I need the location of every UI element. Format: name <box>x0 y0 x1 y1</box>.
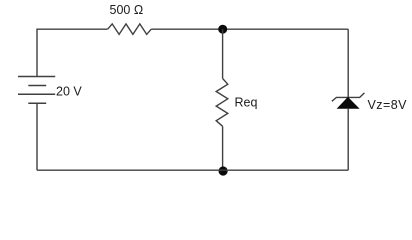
battery V1 plate long top <box>18 76 55 78</box>
wire right branch upper <box>347 29 349 97</box>
svg-text:20 V: 20 V <box>56 85 82 99</box>
battery V1 plate long lower <box>18 93 55 95</box>
zener diode D1 cathode bar <box>332 93 365 101</box>
node top junction <box>218 25 227 34</box>
wire top-left: battery top to resistor <box>37 29 108 76</box>
wire middle branch upper <box>222 29 224 78</box>
svg-text:500 Ω: 500 Ω <box>110 3 144 17</box>
resistor R1 500 ohm <box>108 24 152 35</box>
svg-text:Req: Req <box>235 95 258 109</box>
wire top-right: resistor to right branch <box>151 28 348 30</box>
battery V1 plate short bottom <box>28 102 46 104</box>
node bottom junction <box>219 166 228 175</box>
wire middle branch lower <box>222 126 224 170</box>
wire battery bottom to bottom-left corner <box>36 103 38 170</box>
resistor Req <box>216 79 228 127</box>
wire bottom <box>37 169 348 171</box>
wire right branch lower <box>347 108 349 170</box>
battery V1 plate short <box>28 85 46 87</box>
svg-text:Vz=8V: Vz=8V <box>368 98 408 112</box>
zener diode D1 triangle <box>338 98 359 109</box>
